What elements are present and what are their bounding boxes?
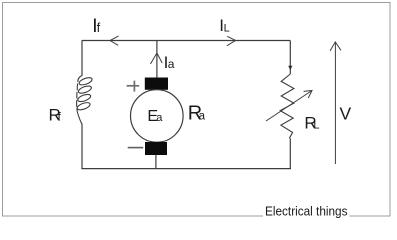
- svg-text:Electrical things: Electrical things: [265, 204, 348, 219]
- wire left upper: [81, 41, 83, 76]
- label V: [340, 104, 352, 124]
- brush bottom (black rectangle): [145, 142, 167, 155]
- wire armature branch: [156, 41, 158, 78]
- wire bottom: [81, 168, 291, 170]
- label Rf: [49, 106, 62, 125]
- label IL: [219, 16, 229, 35]
- wire right lower: [289, 138, 291, 169]
- wire left lower: [81, 124, 83, 170]
- voltage arrow V: [330, 42, 341, 164]
- variable-resistor arrow through RL: [266, 91, 312, 122]
- current arrow Ia (pointing up on armature branch): [150, 53, 162, 64]
- inductor Rf (field winding coil): [76, 76, 93, 125]
- svg-text:f: f: [58, 110, 62, 124]
- label RL: [304, 114, 319, 133]
- current arrowhead down on right wire: [288, 66, 292, 71]
- minus terminal: [128, 147, 144, 149]
- label Ia: [164, 53, 175, 72]
- armature circle U (Ea): [131, 90, 184, 143]
- label Ra: [188, 103, 206, 125]
- wire below brush: [155, 155, 157, 169]
- svg-text:V: V: [340, 104, 352, 124]
- caption background: [263, 202, 350, 220]
- brush top (black rectangle): [145, 78, 168, 90]
- wire top: [82, 40, 291, 42]
- svg-text:L: L: [313, 120, 319, 132]
- current arrow If (pointing left on top wire): [110, 36, 119, 45]
- resistor RL (zigzag): [280, 74, 294, 138]
- caption Electrical things: [265, 204, 348, 219]
- current arrow IL (pointing right on top wire): [227, 36, 236, 46]
- svg-text:a: a: [168, 57, 175, 71]
- svg-text:f: f: [97, 20, 101, 35]
- plus terminal: [127, 81, 140, 92]
- svg-text:a: a: [156, 112, 163, 124]
- svg-text:L: L: [224, 22, 230, 34]
- label Ea: [147, 108, 163, 125]
- wire right upper: [289, 41, 291, 75]
- label If: [92, 16, 100, 37]
- svg-text:a: a: [199, 111, 206, 123]
